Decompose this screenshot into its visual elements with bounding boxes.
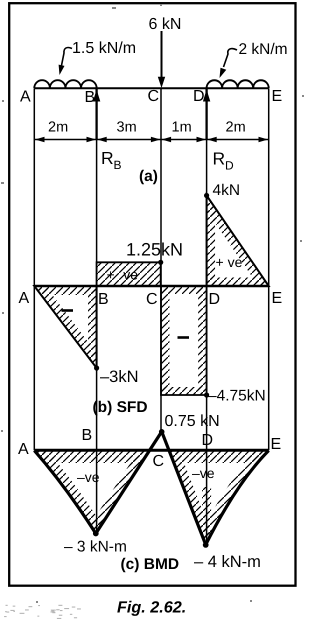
svg-text:–3kN: –3kN <box>100 368 139 386</box>
svg-text:D: D <box>193 88 205 105</box>
svg-text:R: R <box>213 149 226 169</box>
svg-text:–ve: –ve <box>77 469 100 485</box>
svg-text:E: E <box>272 290 283 307</box>
svg-text:3m: 3m <box>117 120 137 136</box>
svg-text:4kN: 4kN <box>213 182 241 199</box>
svg-text:1m: 1m <box>172 120 192 136</box>
svg-text:B: B <box>82 427 93 444</box>
svg-text:C: C <box>153 453 165 470</box>
svg-text:+ ve: + ve <box>107 267 139 283</box>
svg-text:R: R <box>101 148 114 168</box>
svg-text:– 3 kN-m: – 3 kN-m <box>64 539 127 556</box>
svg-text:2m: 2m <box>48 120 68 136</box>
svg-text:1.5 kN/m: 1.5 kN/m <box>72 40 136 57</box>
svg-text:(c) BMD: (c) BMD <box>121 556 180 573</box>
svg-text:A: A <box>19 290 30 307</box>
svg-text:Fig. 2.62.: Fig. 2.62. <box>117 599 186 617</box>
svg-text:E: E <box>271 436 282 453</box>
svg-text:C: C <box>148 88 160 105</box>
svg-text:E: E <box>272 88 283 105</box>
svg-text:D: D <box>209 291 221 308</box>
svg-text:–ve: –ve <box>192 465 215 481</box>
svg-text:B: B <box>98 291 109 308</box>
svg-text:– 4 kN-m: – 4 kN-m <box>194 553 261 571</box>
svg-text:A: A <box>20 89 31 106</box>
svg-text:B: B <box>114 158 122 172</box>
svg-text:2 kN/m: 2 kN/m <box>239 41 288 58</box>
svg-text:D: D <box>202 432 214 449</box>
svg-text:+ ve: + ve <box>216 254 243 270</box>
svg-text:–4.75kN: –4.75kN <box>208 388 266 405</box>
svg-text:(b) SFD: (b) SFD <box>93 399 148 416</box>
svg-text:0.75 kN: 0.75 kN <box>165 413 220 430</box>
svg-text:A: A <box>18 441 29 458</box>
svg-text:1.25kN: 1.25kN <box>126 240 183 260</box>
svg-text:(a): (a) <box>139 168 158 185</box>
svg-text:B: B <box>85 89 96 106</box>
svg-text:D: D <box>225 159 234 173</box>
svg-text:2m: 2m <box>226 120 246 136</box>
svg-text:6 kN: 6 kN <box>149 16 182 33</box>
svg-text:C: C <box>146 291 158 308</box>
